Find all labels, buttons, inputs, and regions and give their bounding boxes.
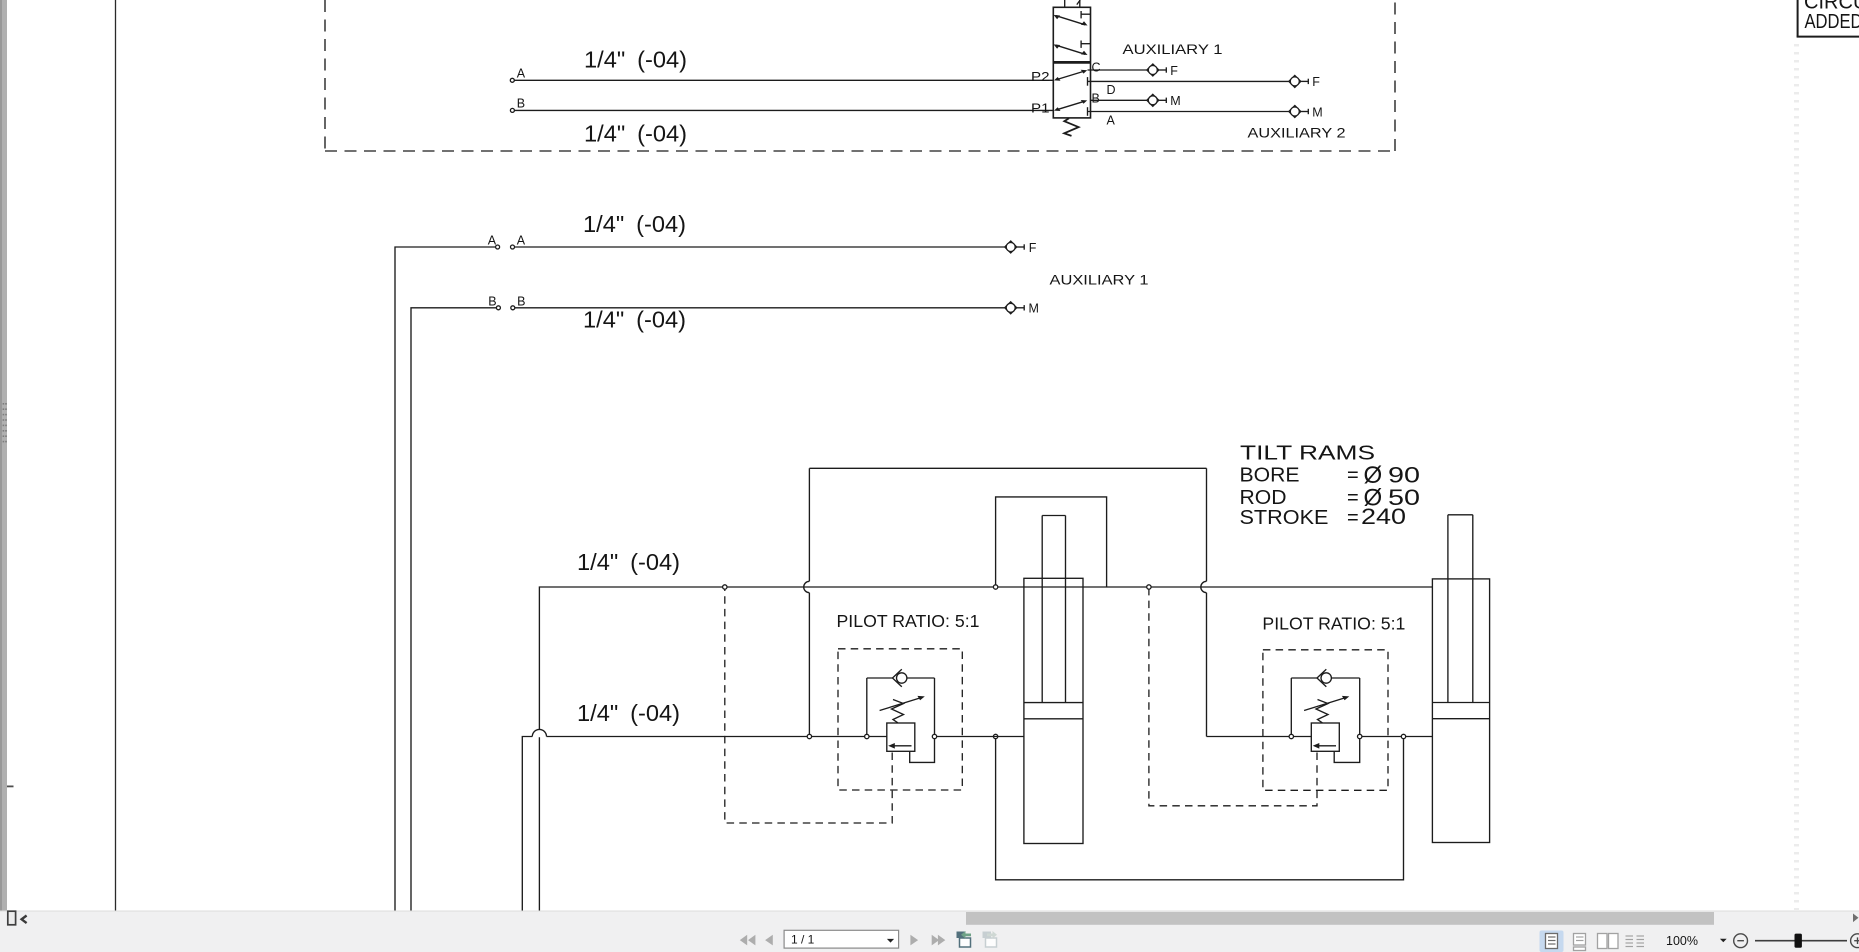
svg-text:PILOT RATIO: 5:1: PILOT RATIO: 5:1 [1262, 614, 1405, 634]
wire B to valve P1 [514, 109, 1053, 111]
wire D to coupler [1088, 80, 1289, 82]
page number input box [784, 930, 899, 948]
continuous page mode button [1574, 934, 1586, 951]
left tilt ram rod [1042, 516, 1065, 703]
left tilt ram piston [1024, 703, 1083, 719]
wire B2 riser [411, 308, 496, 911]
splitter grip dots [3, 403, 7, 442]
left free-flow arrow [888, 743, 911, 749]
node B2 left [496, 306, 500, 310]
svg-text:1/4" (-04): 1/4" (-04) [577, 700, 680, 726]
svg-text:PILOT RATIO: 5:1: PILOT RATIO: 5:1 [837, 611, 980, 631]
right pilot valve envelope rect [1291, 678, 1359, 734]
svg-text:=: = [1347, 487, 1359, 509]
label STROKE = 240 [1240, 504, 1407, 529]
valve V1 position-a blocked port T1 [1081, 11, 1090, 18]
left check valve seat and poppet [893, 669, 907, 686]
wire C to coupler [1088, 69, 1147, 71]
last page button [932, 935, 946, 946]
svg-text:TILT RAMS: TILT RAMS [1240, 443, 1375, 465]
svg-text:B: B [517, 97, 525, 111]
right pilot valve body box [1311, 723, 1339, 751]
right relief spring [1316, 700, 1328, 723]
svg-text:B: B [517, 294, 525, 308]
node right pilot tap [1147, 585, 1151, 589]
zoom dropdown caret [1720, 939, 1727, 943]
blind-side wire right segment [1207, 736, 1312, 738]
svg-text:C: C [1092, 61, 1101, 75]
wire A to coupler [1088, 111, 1289, 113]
valve V1 position-a flow arrow 2 [1054, 44, 1088, 55]
quick coupler F on port D [1289, 75, 1309, 87]
svg-text:A: A [517, 67, 526, 81]
horizontal scrollbar thumb [966, 912, 1714, 925]
sidebar toggle chevron [22, 916, 27, 924]
svg-text:100%: 100% [1666, 934, 1698, 948]
quick coupler M on port A [1289, 106, 1309, 118]
svg-text:D: D [1107, 83, 1116, 97]
quick coupler F on port C [1147, 64, 1167, 76]
svg-text:AUXILIARY 1: AUXILIARY 1 [1050, 272, 1149, 288]
svg-text:M: M [1029, 302, 1039, 316]
node A2 left [496, 245, 500, 249]
facing page mode button [1598, 934, 1619, 949]
svg-text:ADDED: ADDED [1805, 11, 1859, 33]
node left cyl blind port [993, 734, 997, 738]
zoom slider thumb [1795, 934, 1802, 948]
next view icon (disabled) [983, 931, 998, 947]
svg-text:1/4" (-04): 1/4" (-04) [584, 47, 687, 73]
left relief adjust arrow [880, 696, 925, 711]
hose hop over riser x539 [532, 729, 546, 736]
zoom in button [1851, 934, 1859, 948]
page left border [115, 0, 117, 911]
label ROD = D50 [1240, 484, 1421, 511]
wire A2 to coupler [515, 246, 1005, 248]
svg-text:B: B [1092, 92, 1100, 106]
splitter tick mark [7, 786, 14, 788]
svg-text:AUXILIARY 2: AUXILIARY 2 [1248, 125, 1346, 141]
zoom slider track [1755, 940, 1847, 942]
node right valve outlet [1358, 734, 1362, 738]
right pilot line dashed [1149, 590, 1317, 806]
node left valve outlet [932, 734, 936, 738]
wire blind port stub left [937, 736, 1024, 738]
svg-text:STROKE: STROKE [1240, 507, 1329, 529]
right tilt ram body [1432, 579, 1489, 843]
right tilt ram piston [1432, 703, 1489, 719]
left tilt ram body [1024, 578, 1083, 843]
previous view icon [957, 931, 972, 947]
svg-text:1/4" (-04): 1/4" (-04) [583, 307, 686, 333]
svg-text:BORE: BORE [1240, 465, 1300, 487]
right tilt ram rod [1448, 515, 1473, 703]
quick coupler M (aux1 mid) [1005, 302, 1024, 314]
selector valve V1 body [1053, 7, 1090, 118]
node right cyl blind port [1401, 734, 1405, 738]
quick coupler M on port B [1147, 94, 1167, 106]
toolbar background [0, 911, 1859, 952]
svg-text:F: F [1029, 241, 1037, 255]
next page button [910, 935, 918, 946]
svg-text:1/4" (-04): 1/4" (-04) [577, 549, 680, 575]
valve V1 position-b blocked port T3 (D) [1087, 77, 1089, 86]
first page button [740, 935, 756, 946]
left relief spring [892, 700, 904, 723]
svg-text:A: A [517, 234, 526, 248]
svg-text:P1: P1 [1031, 101, 1050, 116]
crossover riser x809 with hop [804, 468, 810, 734]
valve V1 position-a blocked port T2 [1081, 41, 1090, 48]
page right margin faint dotted line [1794, 44, 1799, 910]
svg-text:90: 90 [1388, 463, 1420, 488]
top auxiliary dashed enclosure [325, 0, 1395, 151]
svg-text:1/4" (-04): 1/4" (-04) [583, 211, 686, 237]
svg-text:A: A [1107, 113, 1116, 127]
svg-text:=: = [1347, 507, 1359, 529]
node left cyl rod port [993, 585, 997, 589]
continuous facing mode button [1626, 936, 1645, 947]
left bypass loop [910, 739, 935, 763]
wire B to coupler [1091, 99, 1147, 101]
valve V1 position-a flow arrow 1 [1054, 15, 1088, 26]
svg-text:=: = [1347, 465, 1359, 487]
svg-text:B: B [488, 294, 496, 308]
svg-text:A: A [488, 234, 497, 248]
node pilot tap left [723, 585, 727, 589]
wire riser x539 lower [538, 737, 540, 911]
right check valve seat and poppet [1317, 669, 1331, 686]
revision box CIRCUIT ADDED [1797, 0, 1859, 37]
valve V1 position-b blocked port T4 (A) [1087, 107, 1089, 116]
scrollbar right arrow glyph [1853, 914, 1859, 923]
wire B2 to coupler [515, 307, 1005, 309]
svg-text:F: F [1170, 64, 1178, 78]
wire riser x523 [522, 737, 532, 912]
right bypass loop [1334, 739, 1360, 763]
quick coupler F (aux1 mid) [1005, 241, 1024, 253]
bottom tie line [996, 739, 1404, 880]
left pilot valve envelope rect [867, 678, 935, 734]
svg-text:1 / 1: 1 / 1 [791, 933, 815, 947]
crossover riser x1206 with hop [1201, 468, 1207, 736]
node B2 right [511, 306, 515, 310]
blind-side wire left segment [547, 736, 887, 738]
svg-text:M: M [1170, 94, 1180, 108]
zoom out button [1734, 934, 1748, 948]
left pilot line dashed [725, 590, 892, 824]
svg-text:AUXILIARY 1: AUXILIARY 1 [1123, 41, 1223, 57]
node crossover to blind wire [807, 734, 811, 738]
svg-text:M: M [1312, 105, 1322, 119]
wire right valve outlet to cyl [1362, 736, 1433, 738]
wire A to valve P2 [514, 79, 1053, 81]
svg-text:P2: P2 [1031, 69, 1050, 84]
left pilot valve dashed enclosure [838, 649, 962, 790]
left pilot valve body box [887, 723, 915, 751]
valve V1 position-b flow arrow B-P1 [1054, 100, 1087, 111]
valve V1 return spring [1064, 118, 1078, 136]
node A (top) [510, 78, 514, 82]
sidebar splitter bar [0, 0, 7, 925]
right pilot valve dashed enclosure [1263, 650, 1388, 791]
crossover top link [809, 467, 1206, 469]
svg-text:ROD: ROD [1240, 487, 1287, 509]
label BORE = D90 [1240, 462, 1421, 489]
svg-text:1/4" (-04): 1/4" (-04) [584, 121, 687, 147]
single page mode button (active) [1540, 931, 1564, 952]
valve V1 position-b flow arrow C-P2 [1054, 70, 1087, 81]
node A2 right [511, 245, 515, 249]
wire A2 riser [395, 247, 496, 911]
left cyl rod-side bridge [996, 497, 1107, 587]
valve V1 solenoid stubs (cut off at page top) [1065, 0, 1081, 7]
svg-text:240: 240 [1361, 504, 1406, 529]
right relief adjust arrow [1304, 696, 1349, 711]
node right valve inlet [1289, 734, 1293, 738]
svg-text:F: F [1312, 75, 1320, 89]
node B (top) [510, 108, 514, 112]
sidebar toggle page icon [8, 911, 16, 925]
wire riser x539 upper [539, 587, 1432, 730]
right free-flow arrow [1313, 743, 1336, 749]
node left valve inlet [865, 734, 869, 738]
prev page button [765, 935, 773, 946]
